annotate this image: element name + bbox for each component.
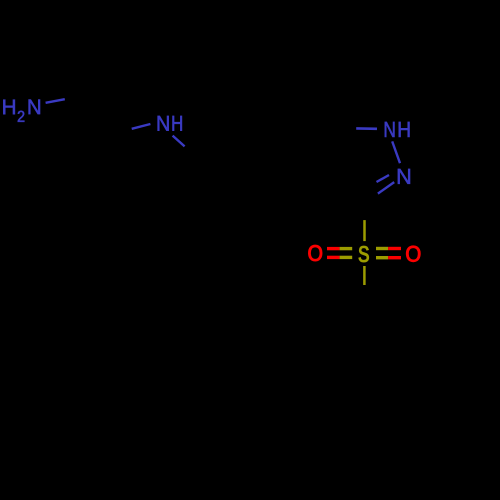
- wire bond H2N-CH2 (N half): [46, 99, 65, 103]
- wire S=O left upper line (S half): [340, 247, 353, 250]
- oxygen O right label: [406, 246, 420, 262]
- secondary amine NH (N): [158, 116, 169, 131]
- wire S=O right upper line (S half): [376, 247, 388, 250]
- atom label H2N (N): [29, 100, 40, 115]
- wire S=O left upper line (O half): [327, 247, 340, 250]
- atom label H2N (subscript 2): [18, 111, 25, 122]
- oxygen O left label: [309, 245, 322, 261]
- wire double bond N2=C3 outer (N half): [378, 182, 394, 194]
- wire S=O left lower line (O half): [327, 256, 340, 259]
- wire bond N1H-N2: [392, 141, 400, 163]
- wire double bond N2=C3 inner (N half): [377, 175, 390, 182]
- wire bond C7a-N1H (N half): [356, 127, 377, 130]
- wire bond C3-S (S half): [363, 220, 366, 241]
- atom label H2N (H): [3, 100, 15, 115]
- wire S=O right lower line (O half): [388, 256, 401, 259]
- wire S=O right upper line (O half): [388, 247, 401, 250]
- sulfonyl S label: [359, 246, 369, 262]
- wire bond NH-CH2 (N half): [173, 136, 185, 147]
- indazole N1-H label (N): [385, 122, 395, 137]
- wire bond S-Cipso (S half): [363, 266, 366, 285]
- indazole N1-H label (H): [399, 122, 410, 137]
- wire S=O right lower line (S half): [376, 256, 388, 259]
- wire bond CH2-NH (N half): [132, 124, 151, 129]
- wire S=O left lower line (S half): [340, 256, 353, 259]
- secondary amine NH (H): [172, 116, 181, 131]
- indazole N2 label: [398, 169, 410, 184]
